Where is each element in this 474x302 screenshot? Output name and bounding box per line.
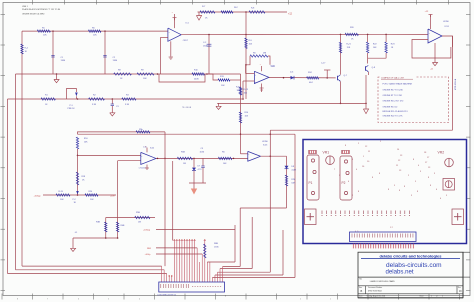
svg-text:4.7V: 4.7V: [198, 169, 203, 171]
svg-text:FOR 2 GANG TRADE MACHINE: FOR 2 GANG TRADE MACHINE: [383, 83, 413, 86]
svg-text:8: 8: [17, 298, 18, 300]
svg-text:MTD 9594 A: MTD 9594 A: [454, 78, 457, 90]
svg-text:10R: 10R: [291, 182, 295, 184]
svg-text:P1: P1: [309, 181, 313, 185]
svg-text:1: 1: [330, 298, 331, 300]
svg-text:R3B: R3B: [96, 222, 101, 224]
svg-text:MTD 9594 9604: MTD 9594 9604: [368, 291, 382, 293]
svg-text:R4B: R4B: [121, 225, 126, 227]
svg-text:L AND K MODULE CARD: L AND K MODULE CARD: [370, 280, 395, 283]
svg-text:240K: 240K: [194, 78, 199, 80]
svg-text:USE 1: USE 1: [22, 6, 29, 8]
svg-text:LF356: LF356: [443, 21, 450, 23]
svg-text:Size: Size: [359, 287, 362, 289]
svg-text:CON1 BERG-STRIP 20: CON1 BERG-STRIP 20: [157, 295, 176, 297]
svg-text:DM: DM: [263, 53, 266, 55]
svg-text:+10Vpp: +10Vpp: [34, 196, 42, 198]
svg-text:5: 5: [108, 298, 109, 300]
svg-text:+10Vp: +10Vp: [145, 254, 152, 256]
svg-text:ORDER MODE 511 MHZ: ORDER MODE 511 MHZ: [22, 14, 45, 16]
svg-text:Sunday, August 08, 2004: Sunday, August 08, 2004: [367, 295, 386, 298]
svg-text:VR2: VR2: [438, 150, 445, 154]
svg-text:+10Vpp: +10Vpp: [143, 230, 151, 232]
svg-text:3.3K: 3.3K: [125, 104, 130, 106]
svg-text:6: 6: [78, 298, 79, 300]
svg-text:B: B: [361, 289, 363, 293]
svg-text:PRE 1K: PRE 1K: [68, 108, 76, 110]
svg-text:4: 4: [139, 298, 140, 300]
svg-text:delabs.net: delabs.net: [385, 268, 413, 275]
svg-text:Title: Title: [359, 278, 362, 281]
svg-text:ORDINE R13 10: ORDINE R13 10: [383, 106, 399, 108]
svg-text:+10V: +10V: [110, 195, 115, 197]
svg-text:TILL BULB: TILL BULB: [182, 107, 192, 109]
svg-text:VR1: VR1: [323, 150, 330, 154]
svg-text:COMPILE OF CALC LIST: COMPILE OF CALC LIST: [381, 76, 405, 79]
svg-text:PLACE IN A ROOM PRM 417 T 151: PLACE IN A ROOM PRM 417 T 151 TO 84: [22, 8, 61, 11]
svg-text:P2: P2: [342, 181, 346, 185]
svg-text:7: 7: [47, 298, 48, 300]
svg-text:3.3K: 3.3K: [92, 104, 97, 106]
svg-text:Document Number: Document Number: [368, 286, 383, 289]
svg-text:delabs circuits and technologi: delabs circuits and technologies: [379, 253, 442, 258]
svg-text:Rev: Rev: [458, 287, 461, 289]
svg-text:ORDINE RT TO 2.2M: ORDINE RT TO 2.2M: [383, 95, 403, 97]
svg-text:1M: 1M: [183, 163, 186, 165]
svg-text:ORDINE R15, R17 470: ORDINE R15, R17 470: [383, 101, 405, 103]
svg-text:OP07: OP07: [183, 40, 189, 42]
svg-text:1M: 1M: [138, 221, 141, 223]
svg-text:R5B: R5B: [136, 212, 141, 214]
svg-text:3: 3: [225, 296, 226, 298]
svg-text:1: 1: [442, 296, 443, 298]
svg-text:2: 2: [300, 298, 301, 300]
svg-text:R6B: R6B: [214, 243, 219, 245]
svg-text:LF356: LF356: [262, 141, 269, 143]
svg-text:ORDINE R22 TO 4.7K: ORDINE R22 TO 4.7K: [383, 116, 404, 118]
svg-text:1: 1: [431, 296, 432, 298]
svg-text:R5B: R5B: [181, 151, 186, 153]
svg-text:BRIDGE R11-12 ALIGN 213: BRIDGE R11-12 ALIGN 213: [383, 110, 409, 113]
svg-text:ORDINE R17 TO 1230: ORDINE R17 TO 1230: [383, 89, 404, 91]
